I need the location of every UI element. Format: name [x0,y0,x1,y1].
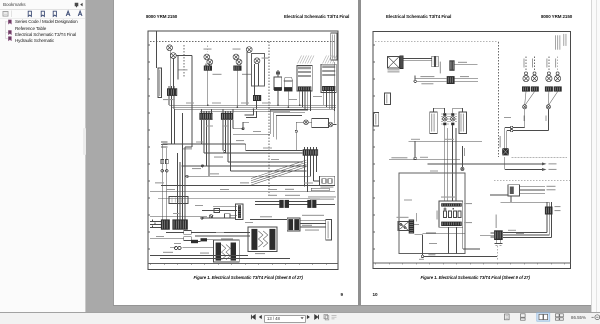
wire labels cell C [155,140,294,190]
left page number [341,292,344,297]
next page button [307,315,310,319]
dashed zone divider [494,180,570,182]
coil CL1 [174,246,181,249]
wire CB2 right [455,63,478,65]
connector CF1 [545,202,561,214]
solenoid SC1 [441,113,448,125]
label [163,99,175,100]
connector CPS2 [221,109,233,120]
dashed line y157 [512,156,567,158]
bulb lamp BL4 [555,72,561,82]
wire y202 [501,201,550,203]
sidebar icons svg [0,0,85,50]
bottom wires [150,255,290,258]
junction J1 [201,165,203,167]
wire C3 to bus [236,71,238,108]
connector array A labels (diagonal) [298,56,315,64]
labels row2 [420,76,469,84]
label above L3 [204,49,212,50]
sheet revision vertical text right page [555,34,566,50]
label at JX1 wire [464,148,465,156]
relay RB1 [388,56,404,73]
long wire y166 [181,165,306,167]
solenoid SC2 [450,113,457,125]
lamp L2 [170,53,176,59]
battery wire A [427,163,542,165]
label below JE1 [428,254,435,255]
wire RE1 to CE1 path [414,213,422,255]
long wire y185 [161,184,335,186]
wires frame edge to RLY1 [150,222,161,228]
bulb socket SK2 [531,86,539,91]
Y wires to junction JY2 [548,92,557,105]
wire y141 [409,140,483,142]
fuse F5 dark [191,240,198,243]
lamp L7 [246,47,252,53]
bookmark ribbon 2 [8,30,11,34]
bulb lamp BL3 [546,72,552,82]
connector C2 [204,64,212,71]
prev page button [259,315,262,319]
junction JE1 circle-x [421,255,497,257]
horn relay box K1 [319,176,334,187]
long wire y192 [150,191,335,193]
ground stub symbols [153,220,156,228]
wires lamp box to C4 and bus [247,52,259,109]
junction JY1 circle-x [523,105,527,109]
two page scroll icon [556,314,564,320]
fuse F4 [184,237,192,241]
solenoid box [312,118,329,127]
right page number [373,292,378,297]
long wire y171 [231,170,307,172]
dashed harness boundary vertical [268,42,270,196]
wire fan below CPS2 [223,120,233,171]
zoom out button [592,315,600,320]
labels near E1 [260,215,324,231]
dashed leads above bulbs [526,56,558,72]
connector pair CP1 [432,56,438,66]
connector CPS-L [167,86,177,98]
wire J5 down [295,132,297,150]
connector C3 [233,66,241,71]
two page view icon (selected) [537,313,550,321]
long wire y150 [246,150,303,152]
trailer connector TC1 [268,195,300,208]
tall box TB1 [430,112,438,134]
wire lamps to connector [170,50,192,88]
wires to CF2 [503,233,551,238]
big enclosure box [399,173,465,254]
junction JD1 [510,126,512,128]
wire to junction JX1 [461,146,463,167]
relay RE1 [397,217,415,234]
labels on bulb feed wires [524,116,525,122]
connector header above RLY2 [169,197,188,204]
left page [114,0,358,305]
wire across below CE1 [463,248,480,250]
junction JY2 circle-x [546,105,550,109]
label box 06-PRIME LIGHTS [158,68,162,98]
junction JB1 [414,80,416,82]
sheet revision vertical text block [331,33,337,60]
long wire y162 [228,161,303,163]
right page running header [386,14,451,19]
bottom labels [163,252,265,254]
bottom toolbar [0,312,600,324]
wire from frame top [155,31,157,68]
wires below CN5 [305,156,317,192]
junction JB2 [414,157,416,159]
wires JD down to fuse [505,127,511,148]
label right of L8 [262,58,269,59]
vertical wires from solenoids down [444,125,456,201]
continuous scroll icon [521,314,526,320]
junction JD2 [510,129,512,131]
long wire y176 [187,175,310,177]
bulb socket SK4 [554,86,562,91]
lamp L1 [167,45,173,51]
single page layout icon [505,314,510,320]
lamp L5 [233,54,239,60]
bookmark ribbon 3 [8,37,11,41]
central connector E1 [287,218,300,231]
wires E1 right [300,221,326,227]
A- icon [78,11,82,16]
trailer connector TC2 [307,188,336,208]
connector CB3 [447,76,455,84]
battery terminal arrows [542,162,547,171]
wires CF1 down [547,215,551,238]
fuse F6 dark [201,238,208,241]
wire H1 to bus [287,91,289,107]
wire to JD1 [513,126,525,128]
junction J6 [201,217,203,219]
main bus wires [169,105,336,111]
misc wire labels left page [156,96,322,244]
junction box BB1 [490,185,556,203]
wires at TC1 [255,202,307,205]
pin header box P1 [235,204,243,219]
bulb lamp BL2 [531,72,537,82]
wires junctions down [525,109,549,131]
junction J3 [186,175,188,177]
connector CN5 [303,147,318,156]
left page running header [146,14,177,19]
pin icon [75,3,78,7]
nested harness loop wires [233,110,308,139]
wire into left of CF2 [480,235,494,237]
dashed stub below CF2 [496,246,498,261]
bridge wires above solenoids [434,108,463,113]
lamp L4 [207,59,213,65]
connector array B labels (diagonal) [323,56,337,64]
tree connector lines [6,21,8,39]
vertical label above CF2 [496,215,497,229]
solenoid lamp S1 [304,120,309,125]
menu icon [332,316,337,319]
wire right edge [334,62,336,124]
bookmarks sidebar [0,0,86,313]
wires connector to bus [169,98,174,109]
long wire y199 [158,198,320,200]
vertical label 06-ALTERNATOR [440,62,441,74]
label above L5 [233,49,241,50]
labels above bulbs [524,59,557,68]
junction J2 [224,150,226,152]
lamp box outline [252,54,265,87]
fuse F2 [166,160,169,173]
right page [361,0,591,305]
dashed boundary top right page [375,41,498,43]
left page caption [194,275,303,280]
transformer T2 [248,227,277,251]
label on y234.6 [426,232,436,233]
fuse F1 [161,142,168,172]
junction J5 [295,130,297,132]
last page button [315,315,319,319]
buzzer B1 [274,70,282,91]
relay RLY2 [172,219,187,229]
horn H1 [284,78,293,91]
options square icon [3,12,8,17]
vertical bundle into RLY2 [172,56,193,220]
connector CPS1 [199,109,212,120]
bulb socket SK3 [545,86,553,91]
wire y234.6 [423,233,466,235]
mini box M1 [214,209,220,213]
bookmark ribbon 1 [8,20,11,24]
wires below arrays [300,91,335,111]
connector CF2 [491,230,503,245]
wires to P1 [202,207,237,218]
lamp L3 [204,54,210,60]
dashed stub above L3 [207,46,209,53]
wire left vertical pair [162,144,167,219]
dashed stub [183,45,185,78]
wire to junction J4 [233,122,249,130]
label box left frame edge [374,113,379,127]
wires around fuses [150,232,250,247]
A+ icon [66,11,70,16]
long wire y144 [162,144,245,151]
wire C2 to bus [207,71,209,106]
dashed harness boundary top [150,41,336,43]
connector CB2 [449,60,454,71]
wires to solenoids [296,122,336,131]
transformer T1 [214,238,240,262]
battery terminal labels [549,163,557,170]
fuse block FD1 [502,148,509,155]
bulb lamp BL1 [523,72,529,82]
ground wire y159.7 [389,159,460,161]
wires CE1 bottom down [448,227,462,253]
misc wire labels right page [404,117,524,244]
terminal box E2 [326,220,332,241]
wire from TC2 [316,203,335,205]
long wire y153 [204,152,303,154]
junction J4 [242,128,244,130]
label on ground wire [391,157,407,158]
label on wire [458,62,467,63]
dropdown arrow [301,317,304,319]
dashed boundary vertical right page [497,42,499,157]
wire y181 into K1 [314,180,320,182]
wires to CB3 [415,76,447,82]
cluster-4 feed bends [245,109,257,117]
bus junction dots [207,104,301,110]
lamp L8 [254,58,260,64]
wire fan below CPS1 [202,120,210,177]
connector array B [321,64,336,92]
Y wires to junction JY1 [525,92,535,105]
labels above CE1 [441,197,472,224]
diagonal harness bundle [251,160,307,185]
wire to JD2 [513,130,549,132]
box TB2 [459,112,467,134]
right page caption [421,275,530,280]
solenoid lamp S2 [328,122,333,127]
label left of CE1 [437,211,438,220]
wire y217 [150,216,207,218]
label below C3 [242,74,251,75]
first page button [251,315,255,319]
central block CE1 [439,201,463,227]
wires CB3 right [455,79,478,82]
drawing frame left page [148,31,338,270]
bookmark icon 2 [41,11,44,16]
stub to junction [414,141,416,157]
connector array A [297,66,312,91]
drawing frame right page [373,32,571,269]
collapse chevron [80,3,82,7]
label below C2 [213,74,222,75]
mini box M2 [225,214,231,218]
vertical label left of wires [500,136,501,148]
wires RB1 right [404,58,432,60]
label box 06-LIGHTS right page [385,93,391,105]
mini lamp M3 [209,215,213,218]
bulb socket SK1 [522,86,530,91]
snapshot icon [324,315,329,320]
wire B1 to bus [277,91,279,105]
wire E1 left [250,218,287,220]
fuse F3 [184,231,192,235]
label 58-20 [179,69,188,70]
relay RLY1 [161,219,170,229]
junction JX1 circle-x [461,167,464,170]
lamp L6 [236,59,242,65]
connector C4 [253,95,261,101]
bookmark icon 1 [28,11,31,16]
bookmark icon 3 [53,11,56,16]
battery wire B [505,157,542,170]
